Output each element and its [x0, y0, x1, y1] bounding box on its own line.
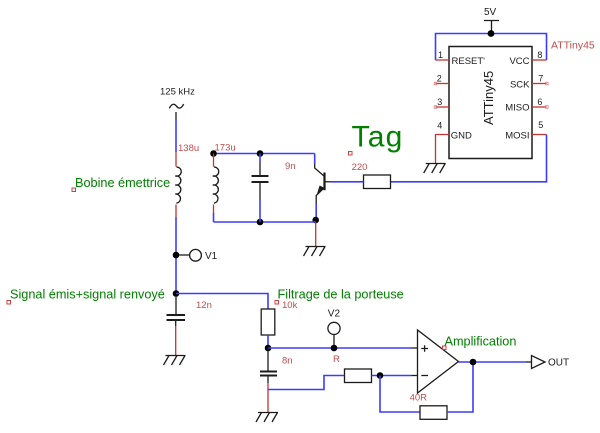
svg-text:Bobine émettrice: Bobine émettrice: [75, 176, 170, 190]
svg-text:4: 4: [437, 121, 442, 131]
node filter: [265, 345, 272, 352]
wire tap 8n to series R: [268, 376, 345, 390]
wire tank top rail: [214, 153, 315, 155]
svg-text:GND: GND: [451, 131, 472, 142]
node 5V junction: [488, 30, 495, 37]
svg-text:RESET': RESET': [452, 56, 486, 67]
svg-text:2: 2: [437, 74, 442, 84]
wire 40R to output: [447, 362, 473, 412]
wire opamp out: [459, 361, 527, 363]
svg-text:5V: 5V: [484, 7, 497, 18]
svg-text:220: 220: [352, 162, 368, 173]
wire source to L1: [175, 120, 177, 152]
transistor Q1: [315, 164, 332, 204]
wire 10k to bottom node: [267, 335, 269, 348]
pin 3 stub: [436, 106, 450, 108]
svg-text:125 kHz: 125 kHz: [160, 87, 195, 98]
svg-text:1: 1: [438, 50, 443, 60]
resistor 40R: [420, 406, 447, 420]
node tank top left: [210, 150, 217, 157]
pin 6 stub: [532, 106, 547, 108]
op-amp U2: [418, 330, 459, 393]
svg-text:173u: 173u: [215, 143, 236, 154]
wire feedback down: [380, 376, 420, 413]
svg-text:7: 7: [538, 74, 543, 84]
wire R to minus node: [372, 375, 412, 377]
pin 7 stub: [532, 83, 547, 85]
inductor L2 173u: [213, 143, 236, 223]
ground 8n: [256, 413, 278, 423]
pin 2 stub: [436, 83, 450, 85]
svg-text:12n: 12n: [196, 300, 212, 311]
svg-text:138u: 138u: [178, 143, 199, 154]
svg-text:6: 6: [537, 97, 542, 107]
resistor R series: [345, 369, 372, 383]
power 5V symbol: [484, 7, 499, 34]
svg-text:MOSI: MOSI: [505, 131, 529, 142]
svg-text:Tag: Tag: [352, 121, 404, 154]
wire emitter to ground: [315, 222, 317, 247]
svg-text:40R: 40R: [410, 393, 428, 404]
wire bottom horizontal to opamp plus: [268, 347, 412, 349]
svg-text:MISO: MISO: [505, 103, 529, 114]
IC U1 ATTiny45: [449, 47, 532, 159]
svg-text:ATTiny45: ATTiny45: [481, 71, 496, 125]
wire MOSI to resistor 220: [391, 135, 547, 182]
pin 5 stub: [532, 134, 547, 136]
pin 8 stub: [532, 59, 547, 61]
svg-text:VCC: VCC: [509, 56, 529, 67]
inductor L1 138u: [175, 143, 199, 217]
wire tank bottom rail: [214, 221, 316, 223]
node cap top: [257, 150, 264, 157]
svg-text:Signal émis+signal renvoyé: Signal émis+signal renvoyé: [10, 288, 165, 302]
resistor 220: [364, 175, 391, 189]
svg-text:Amplification: Amplification: [445, 335, 517, 349]
node signal emis: [173, 290, 180, 297]
svg-text:5: 5: [538, 120, 543, 130]
ground transistor: [304, 247, 326, 257]
capacitor C1 9n: [252, 154, 296, 223]
svg-text:ATTiny45: ATTiny45: [551, 40, 595, 52]
svg-text:10k: 10k: [282, 300, 298, 311]
svg-text:OUT: OUT: [548, 358, 569, 369]
capacitor C3 8n: [260, 348, 293, 413]
wire 220 to base: [331, 181, 363, 183]
svg-text:V1: V1: [205, 251, 218, 262]
node cap bottom: [257, 219, 264, 226]
svg-text:8: 8: [537, 50, 542, 60]
wire emitter down: [315, 204, 317, 221]
pin 1 stub: [436, 59, 450, 61]
node output: [470, 359, 477, 366]
ground 12n: [164, 356, 186, 366]
resistor 10k: [261, 309, 275, 335]
node minus input: [377, 372, 384, 379]
wire collector to tank rail: [314, 154, 316, 165]
wire L1 to signal node: [175, 217, 177, 294]
svg-text:3: 3: [437, 97, 442, 107]
ground ATTiny: [424, 164, 446, 174]
source 125 kHz: [160, 87, 195, 120]
wire signal node to 10k: [176, 294, 268, 310]
svg-text:R: R: [333, 354, 340, 365]
capacitor C2 12n: [167, 296, 212, 356]
svg-text:9n: 9n: [285, 161, 296, 172]
svg-text:V2: V2: [328, 309, 341, 320]
svg-text:8n: 8n: [282, 356, 293, 367]
node emitter junction: [312, 217, 319, 224]
terminal OUT: [532, 356, 570, 369]
probe V1: [173, 249, 218, 262]
pin 4 stub GND wire: [436, 135, 450, 164]
svg-text:SCK: SCK: [510, 80, 530, 91]
probe V2: [328, 309, 341, 352]
wire 5V rail to VCC and RESET: [436, 34, 547, 61]
